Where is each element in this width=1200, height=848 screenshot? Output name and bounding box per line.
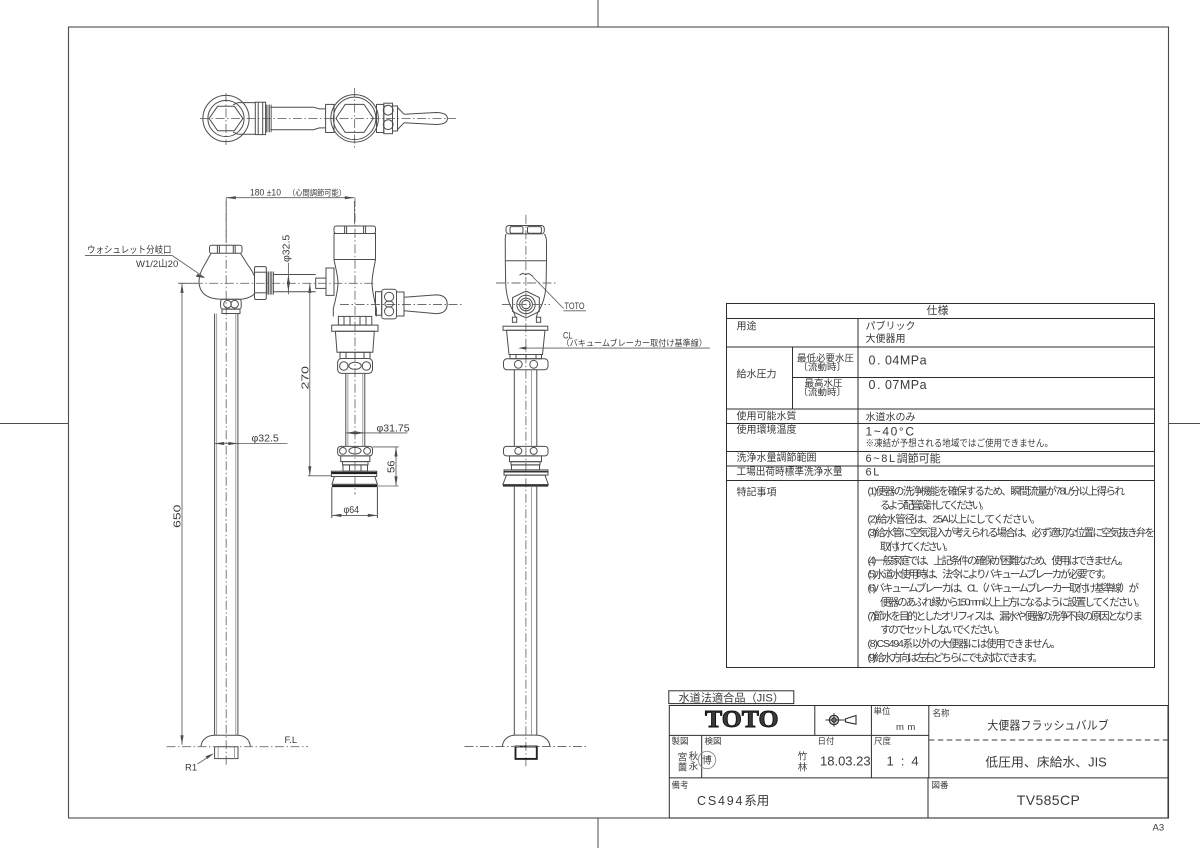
third angle projection symbol	[826, 713, 857, 727]
side lower body	[505, 261, 546, 317]
svg-text:CS494系用: CS494系用	[697, 794, 769, 808]
svg-text:仕様: 仕様	[927, 303, 949, 317]
inlet inner circle	[208, 100, 244, 136]
handle boss	[376, 292, 382, 316]
main valve centerline	[354, 198, 356, 495]
svg-text:るよう配管設計してください。: るよう配管設計してください。	[880, 498, 990, 511]
CL mark arrow	[518, 347, 527, 350]
branch valve cap	[210, 245, 243, 253]
svg-text:給水圧力: 給水圧力	[737, 367, 777, 380]
spud ring nut 2	[338, 446, 373, 456]
side vb collar	[510, 355, 542, 359]
svg-text:ウォシュレット分岐口: ウォシュレット分岐口	[87, 244, 172, 256]
base band	[338, 316, 371, 325]
inlet union nut	[255, 102, 265, 134]
svg-text:取付けてください。: 取付けてください。	[880, 540, 954, 553]
svg-text:0.07MPa: 0.07MPa	[869, 378, 928, 392]
dim φ32.5 upper (pipe)	[287, 263, 289, 295]
dim φ31.75	[346, 432, 408, 434]
svg-text:日付: 日付	[818, 736, 836, 746]
side ring nut 2	[504, 446, 549, 456]
side pipe upper	[514, 370, 537, 447]
branch ring nut	[221, 299, 242, 309]
handle ball nut	[382, 289, 397, 319]
svg-text:(6)バキュームブレーカは、CL（バキュームブレーカー取付け: (6)バキュームブレーカは、CL（バキュームブレーカー取付け基準線）が	[868, 582, 1140, 595]
valve left connector	[326, 104, 334, 132]
svg-text:(7)節水を目的としたオリフィスは、漏水や便器の洗浄不良の原: (7)節水を目的としたオリフィスは、漏水や便器の洗浄不良の原因となりま	[868, 609, 1144, 622]
svg-text:大便器フラッシュバルブ: 大便器フラッシュバルブ	[987, 718, 1109, 733]
svg-text:用途: 用途	[737, 319, 757, 332]
svg-text:製図: 製図	[672, 736, 689, 746]
spud collar stack	[341, 456, 370, 462]
svg-text:林: 林	[798, 762, 808, 774]
svg-text:使用可能水質: 使用可能水質	[737, 410, 797, 423]
side axis centerline	[496, 282, 556, 284]
valve inner circle	[333, 97, 376, 139]
main valve inlet boss	[326, 268, 334, 295]
svg-text:(5)水道水使用時は、法令によりバキュームブレーカが必要です: (5)水道水使用時は、法令によりバキュームブレーカが必要です。	[868, 568, 1113, 581]
svg-text:φ31.75: φ31.75	[377, 422, 410, 434]
svg-text:TV585CP: TV585CP	[1017, 792, 1081, 808]
left riser pipe	[215, 314, 238, 736]
svg-text:工場出荷時標準洗浄水量: 工場出荷時標準洗浄水量	[737, 465, 843, 478]
valve hex	[336, 104, 374, 132]
side ring nut 1	[504, 359, 549, 370]
floor flange dome left	[201, 735, 251, 747]
svg-text:φ64: φ64	[344, 504, 360, 516]
svg-text:56: 56	[386, 460, 398, 473]
side cap	[506, 226, 544, 234]
svg-text:18.03.23: 18.03.23	[820, 754, 871, 769]
dim 650	[178, 282, 198, 284]
side nut circles	[517, 295, 535, 313]
svg-text:φ32.5: φ32.5	[252, 433, 279, 445]
dim 180±10 line	[226, 197, 354, 199]
svg-text:(8)CS494系以外の大便器には使用できません。: (8)CS494系以外の大便器には使用できません。	[868, 637, 1062, 650]
svg-text:尺度: 尺度	[874, 736, 892, 746]
branch valve body	[199, 253, 255, 299]
handle ball nut top view	[384, 103, 393, 134]
dashed divider in name cell	[929, 739, 1168, 741]
svg-text:6L: 6L	[866, 467, 881, 479]
side collar stack	[510, 456, 542, 462]
centering mark bottom	[597, 818, 599, 848]
svg-text:備考: 備考	[672, 780, 689, 790]
spec table outer frame	[727, 304, 1155, 668]
svg-text:（心間調節可能）: （心間調節可能）	[288, 187, 346, 197]
svg-text:使用環境温度: 使用環境温度	[737, 423, 797, 436]
svg-text:(4)一般家庭では、上記条件の確保が困難なため、使用はできま: (4)一般家庭では、上記条件の確保が困難なため、使用はできません。	[868, 554, 1130, 567]
spud bell	[332, 477, 377, 485]
F.L floor line	[167, 746, 309, 748]
svg-text:薗: 薗	[678, 762, 688, 774]
handle axis centerline	[340, 304, 462, 306]
left riser centerline	[225, 198, 227, 767]
valve outer circle	[331, 95, 379, 142]
side floor line	[465, 746, 587, 748]
main valve inlet stub	[316, 278, 326, 288]
handle rod top view	[404, 113, 447, 125]
side pipe lower	[514, 486, 537, 735]
TOTO engraving mark	[520, 273, 534, 276]
svg-text:TOTO: TOTO	[565, 301, 585, 312]
centering mark top	[597, 0, 599, 27]
svg-text:※凍結が予想される地域ではご使用できません。: ※凍結が予想される地域ではご使用できません。	[866, 438, 1054, 450]
horizontal supply pipe	[273, 275, 315, 292]
dim φ32.5 lower left	[215, 443, 288, 445]
svg-text:270: 270	[299, 366, 311, 390]
side vacuum breaker body	[507, 330, 546, 354]
title block outer frame	[669, 706, 1168, 819]
connecting pipe top view	[270, 107, 325, 130]
svg-text:0.04MPa: 0.04MPa	[869, 354, 928, 368]
side nut centerline	[502, 304, 550, 306]
svg-text:特記事項: 特記事項	[737, 485, 777, 498]
pipe axis centerline	[178, 282, 374, 284]
title block row line 2	[669, 777, 1168, 779]
inlet ell body plate	[233, 103, 255, 135]
svg-text:(1)便器の洗浄機能を確保するため、瞬間流量が78L/分以上: (1)便器の洗浄機能を確保するため、瞬間流量が78L/分以上得られ	[868, 485, 1126, 498]
svg-text:検図: 検図	[705, 736, 722, 746]
branch collar	[222, 309, 240, 313]
side bell	[503, 475, 548, 484]
svg-text:単位: 単位	[874, 706, 892, 716]
svg-text:A3: A3	[1153, 823, 1165, 834]
inlet outer circle	[203, 95, 249, 141]
svg-text:6~8L調節可能: 6~8L調節可能	[866, 451, 941, 465]
svg-text:F.L: F.L	[285, 735, 298, 746]
svg-text:竹: 竹	[798, 751, 808, 763]
svg-text:すのでセットしないでください。: すのでセットしないでください。	[880, 624, 1006, 636]
svg-text:永: 永	[689, 761, 699, 773]
floor fitting square left	[215, 747, 238, 759]
svg-text:（バキュームブレーカー取付け基準線）: （バキュームブレーカー取付け基準線）	[562, 338, 708, 348]
vb collar	[340, 352, 370, 358]
tail pipe	[346, 373, 365, 446]
valve right connector	[377, 104, 384, 132]
main valve cap	[334, 226, 376, 234]
TOTO leader and label	[533, 277, 564, 309]
main valve upper body	[334, 234, 376, 260]
svg-text:水道法適合品（JIS）: 水道法適合品（JIS）	[679, 690, 785, 704]
svg-text:博: 博	[702, 755, 712, 767]
svg-text:洗浄水量調節範囲: 洗浄水量調節範囲	[737, 451, 817, 464]
spud gasket plate	[331, 471, 376, 476]
handle neck top view	[393, 106, 398, 131]
centering mark right	[1169, 423, 1200, 425]
svg-text:mm: mm	[896, 722, 919, 733]
svg-text:水道水のみ: 水道水のみ	[866, 411, 916, 424]
top view inlet vertical centerline	[225, 93, 227, 145]
side vb top plate	[503, 326, 548, 330]
spud ring nut 1	[338, 359, 373, 374]
side body feet	[512, 317, 516, 322]
title block column lines	[814, 706, 816, 736]
dim 56	[373, 446, 399, 448]
spec table column lines	[857, 319, 859, 668]
vb top plate	[332, 325, 378, 331]
svg-text:低圧用、床給水、JIS: 低圧用、床給水、JIS	[985, 756, 1107, 770]
svg-text:1:4: 1:4	[887, 754, 926, 769]
svg-text:180 ±10: 180 ±10	[250, 188, 281, 199]
spud cylinder	[332, 487, 378, 518]
side floor square thick	[516, 747, 537, 759]
svg-text:大便器用: 大便器用	[866, 332, 906, 345]
dim φ64	[332, 514, 378, 516]
dim 180±10 extension lines	[225, 201, 227, 243]
svg-text:R1: R1	[185, 763, 197, 774]
thread band	[266, 105, 271, 133]
svg-text:パブリック: パブリック	[866, 320, 916, 333]
svg-text:〔流動時〕: 〔流動時〕	[799, 362, 847, 374]
inlet hex	[209, 106, 243, 130]
top view valve vertical centerline	[354, 88, 356, 149]
svg-text:図番: 図番	[932, 780, 950, 790]
svg-text:(3)給水管に空気混入が考えられる場合は、必ず適切な位置に空: (3)給水管に空気混入が考えられる場合は、必ず適切な位置に空気抜き弁を	[868, 526, 1156, 539]
dim 270	[309, 283, 311, 476]
svg-text:名称: 名称	[933, 708, 951, 718]
side centerline	[525, 215, 527, 767]
side bottom plate	[504, 470, 548, 475]
handle neck	[397, 292, 405, 316]
svg-text:〔流動時〕: 〔流動時〕	[799, 387, 847, 399]
side upper body	[505, 234, 546, 261]
svg-text:TOTO: TOTO	[705, 707, 779, 733]
side floor dome	[502, 735, 550, 746]
CL leader line	[534, 347, 710, 349]
title block row line 1	[669, 734, 929, 736]
vacuum breaker body	[335, 331, 374, 352]
JIS approval box	[669, 691, 794, 704]
svg-text:650: 650	[172, 504, 184, 528]
centering mark left	[0, 423, 69, 425]
handle rod	[404, 295, 447, 314]
svg-text:φ32.5: φ32.5	[281, 235, 293, 262]
main valve body	[333, 260, 376, 317]
top view horizontal centerline	[200, 117, 456, 119]
svg-text:(9)給水方向は左右どちらにでも対応できます。: (9)給水方向は左右どちらにでも対応できます。	[868, 651, 1044, 664]
branch coupling nut	[255, 267, 267, 300]
svg-text:1~40°C: 1~40°C	[866, 425, 916, 439]
side hex nut	[513, 291, 540, 318]
svg-text:W1/2山20: W1/2山20	[136, 259, 178, 270]
thread band front	[267, 272, 273, 295]
svg-text:(2)給水管径は、25A以上にしてください。: (2)給水管径は、25A以上にしてください。	[868, 512, 1042, 525]
spec table row lines	[727, 318, 1155, 320]
svg-text:便器のあふれ縁から150mm以上上方になるように設置してくだ: 便器のあふれ縁から150mm以上上方になるように設置してください。	[880, 596, 1146, 609]
